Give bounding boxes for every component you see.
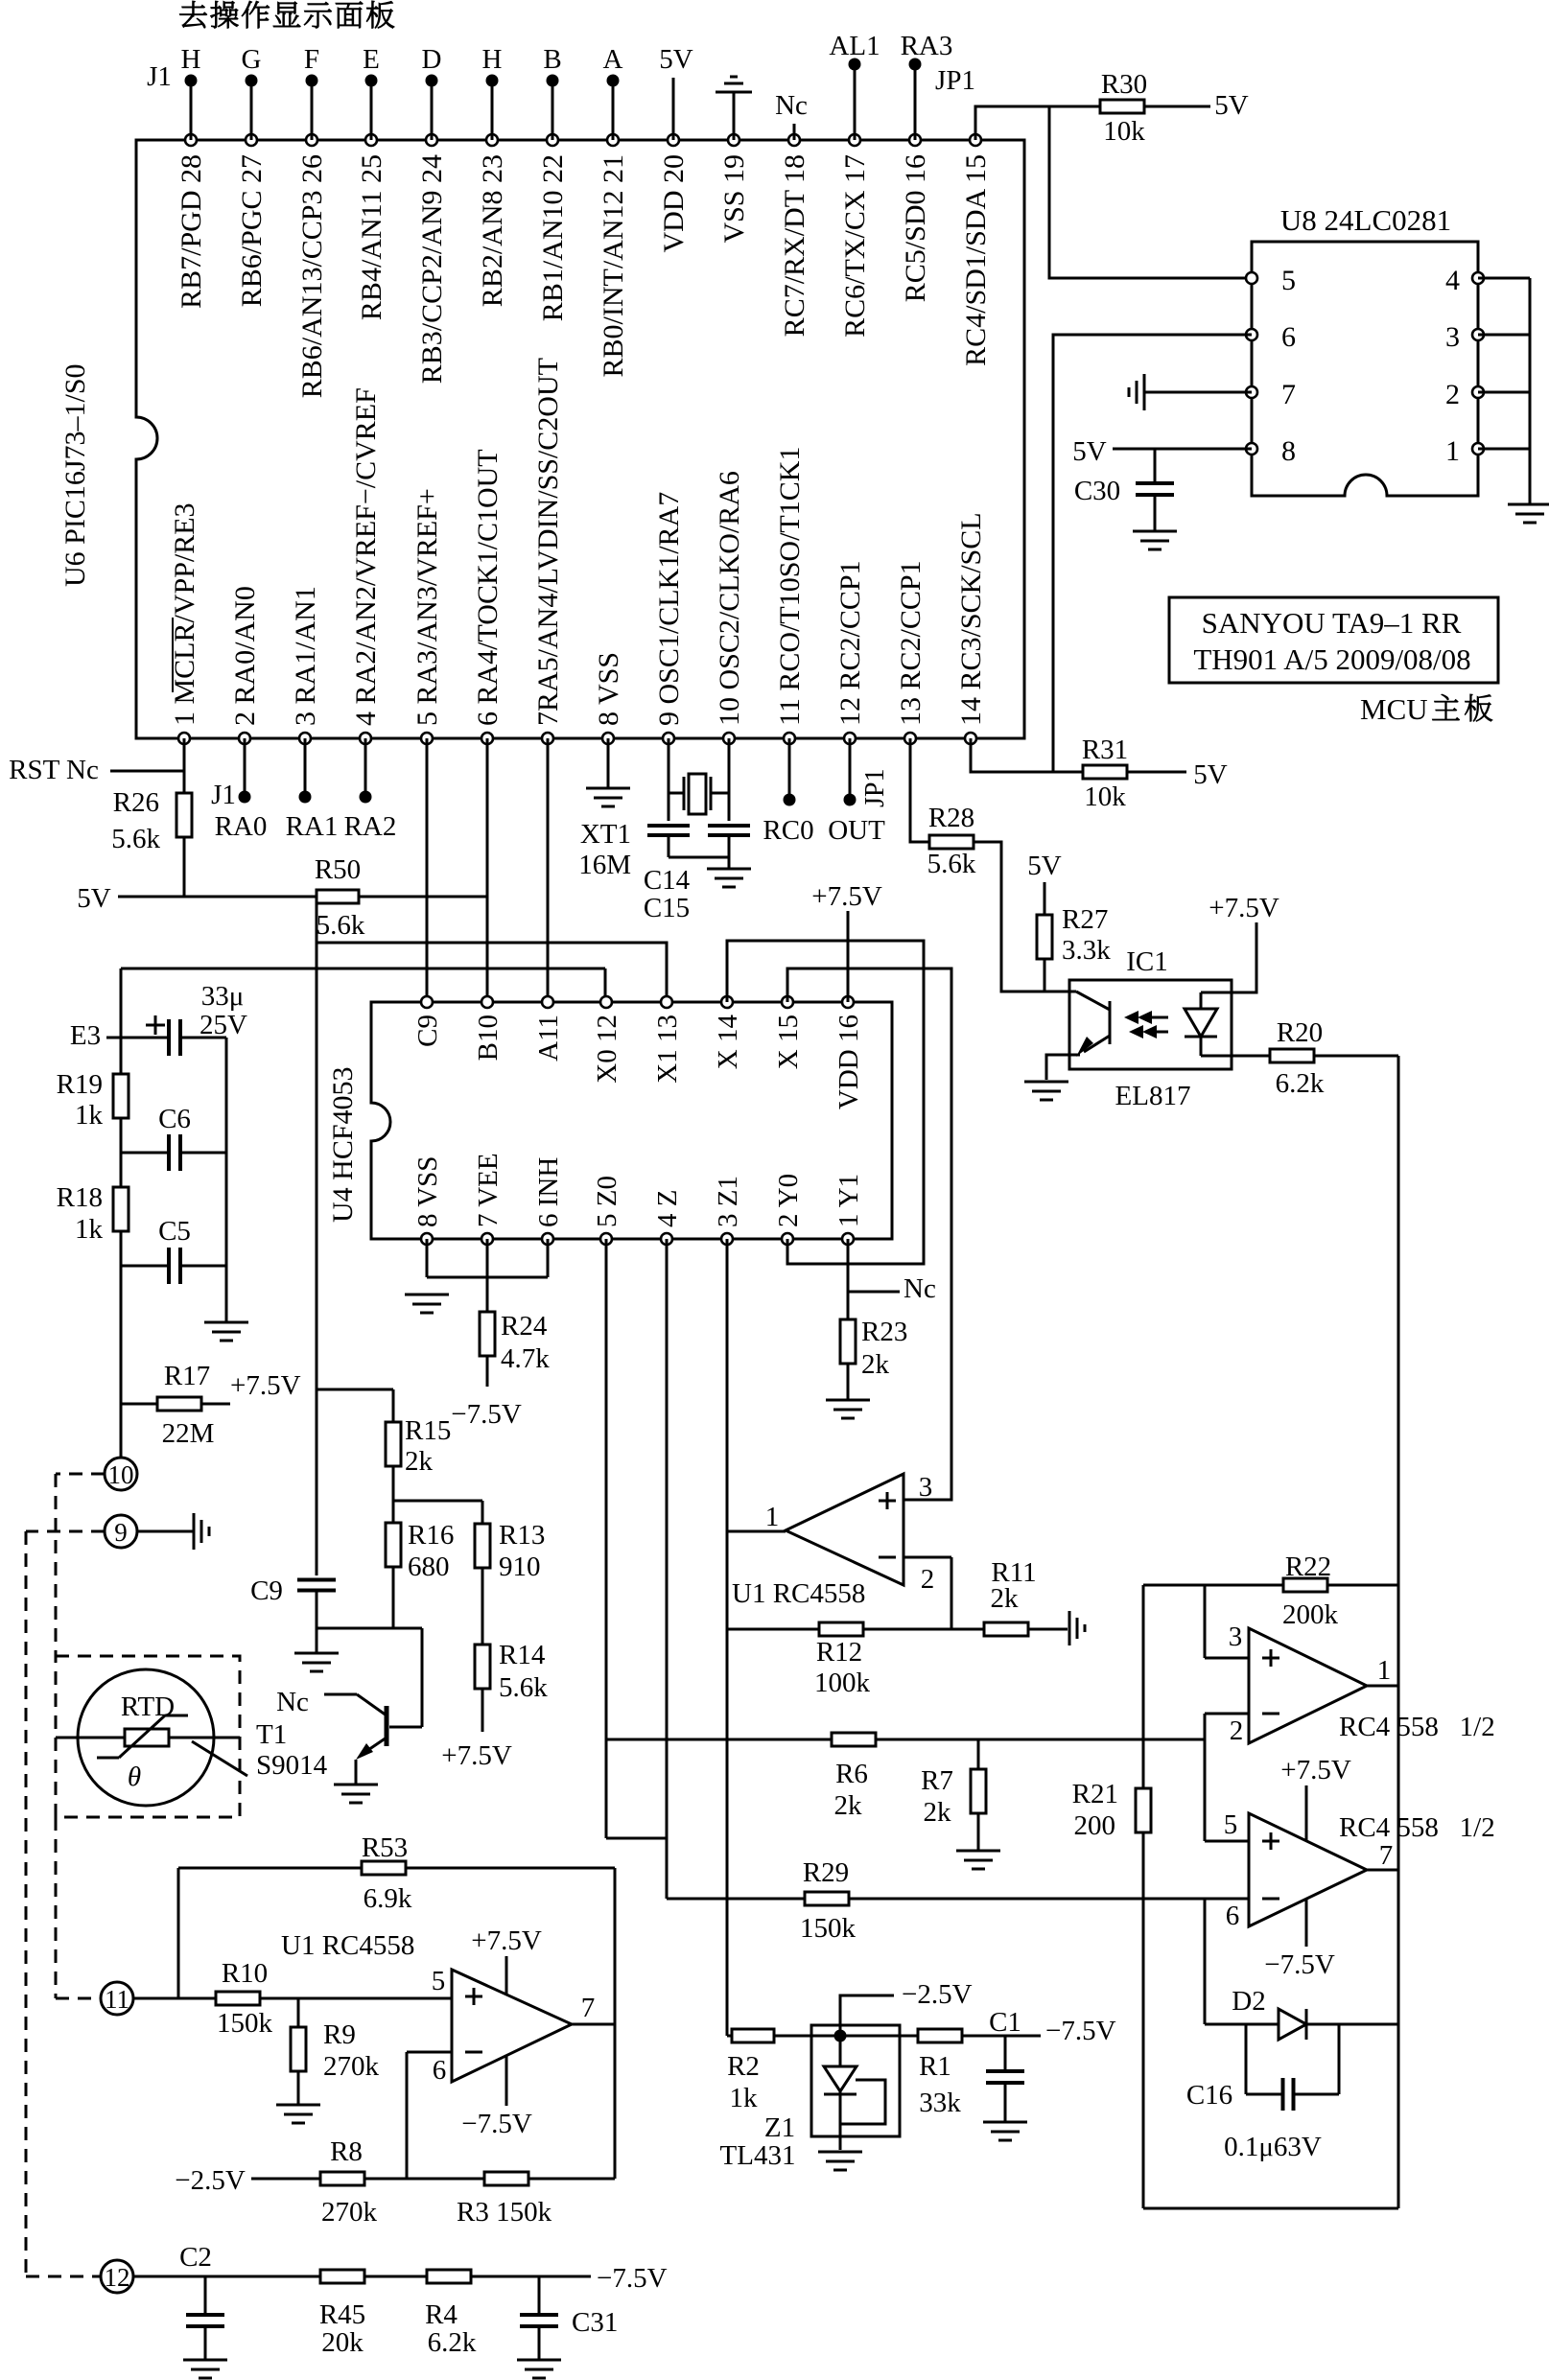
svg-text:θ: θ	[128, 1762, 141, 1792]
svg-text:5V: 5V	[77, 883, 111, 914]
svg-text:+7.5V: +7.5V	[811, 881, 882, 912]
svg-text:16M: 16M	[578, 850, 631, 880]
svg-text:RC4 558 1/2: RC4 558 1/2	[1339, 1712, 1495, 1742]
svg-text:3 Z1: 3 Z1	[713, 1176, 743, 1227]
svg-text:RB6/PGC 27: RB6/PGC 27	[236, 154, 268, 307]
svg-text:EL817: EL817	[1115, 1081, 1191, 1111]
svg-text:RC4 558 1/2: RC4 558 1/2	[1339, 1812, 1495, 1843]
svg-text:J1: J1	[211, 780, 236, 810]
svg-text:10: 10	[108, 1460, 134, 1489]
svg-text:F: F	[304, 44, 319, 75]
svg-text:R21: R21	[1072, 1779, 1118, 1809]
svg-text:22M: 22M	[162, 1418, 215, 1449]
svg-text:6: 6	[1226, 1901, 1240, 1931]
svg-text:2 RA0/AN0: 2 RA0/AN0	[229, 586, 261, 726]
svg-text:R53: R53	[362, 1832, 408, 1863]
svg-text:RB7/PGD 28: RB7/PGD 28	[176, 154, 207, 309]
svg-text:C14: C14	[644, 865, 691, 896]
svg-text:−7.5V: −7.5V	[451, 1399, 522, 1430]
svg-text:R13: R13	[499, 1520, 545, 1551]
svg-text:C6: C6	[158, 1104, 191, 1134]
svg-text:RB1/AN10 22: RB1/AN10 22	[537, 154, 569, 321]
svg-text:2k: 2k	[405, 1446, 434, 1477]
svg-text:1k: 1k	[75, 1100, 104, 1131]
svg-text:5: 5	[432, 1966, 446, 1996]
svg-text:5V: 5V	[1193, 759, 1228, 790]
svg-text:E: E	[363, 44, 380, 75]
svg-text:C5: C5	[158, 1216, 191, 1247]
svg-text:1: 1	[1377, 1655, 1392, 1686]
svg-text:2k: 2k	[834, 1790, 863, 1821]
svg-text:−2.5V: −2.5V	[175, 2165, 246, 2196]
svg-text:33k: 33k	[919, 2088, 961, 2118]
svg-text:R7: R7	[921, 1765, 953, 1796]
svg-text:R29: R29	[803, 1857, 849, 1888]
svg-text:5V: 5V	[659, 44, 693, 75]
svg-text:1 Y1: 1 Y1	[833, 1174, 864, 1227]
svg-text:R10: R10	[222, 1958, 268, 1989]
svg-text:C9: C9	[412, 1015, 443, 1047]
svg-text:R18: R18	[57, 1182, 103, 1213]
svg-text:RB4/AN11 25: RB4/AN11 25	[356, 154, 387, 320]
svg-text:1 MCLR/VPP/RE3: 1 MCLR/VPP/RE3	[169, 502, 200, 726]
svg-text:VDD 20: VDD 20	[658, 154, 690, 253]
svg-text:R27: R27	[1062, 904, 1108, 935]
svg-text:680: 680	[408, 1552, 450, 1582]
svg-text:+7.5V: +7.5V	[441, 1740, 512, 1771]
svg-text:8 VSS: 8 VSS	[593, 652, 624, 726]
svg-text:6.2k: 6.2k	[1276, 1068, 1325, 1099]
svg-text:2k: 2k	[861, 1349, 890, 1380]
svg-text:R8: R8	[330, 2136, 363, 2167]
svg-text:RB0/INT/AN12 21: RB0/INT/AN12 21	[598, 154, 629, 378]
svg-text:Nc: Nc	[775, 90, 808, 121]
svg-text:RC0: RC0	[763, 815, 813, 846]
svg-text:X1 13: X1 13	[652, 1015, 683, 1084]
svg-text:U8 24LC0281: U8 24LC0281	[1280, 203, 1451, 237]
svg-text:8: 8	[1281, 435, 1296, 467]
svg-text:1k: 1k	[75, 1214, 104, 1245]
svg-text:RB6/AN13/CCP3 26: RB6/AN13/CCP3 26	[296, 154, 328, 398]
svg-text:150k: 150k	[217, 2008, 273, 2039]
svg-text:7: 7	[1379, 1840, 1394, 1871]
svg-text:R45: R45	[319, 2299, 365, 2330]
svg-text:5V: 5V	[1214, 90, 1249, 121]
svg-text:U6 PIC16J73–1/S0: U6 PIC16J73–1/S0	[59, 363, 91, 587]
svg-text:RA3: RA3	[901, 31, 953, 61]
svg-text:RA2: RA2	[344, 811, 397, 842]
svg-text:R19: R19	[57, 1069, 103, 1100]
svg-text:3: 3	[1229, 1622, 1243, 1652]
svg-text:Nc: Nc	[904, 1273, 936, 1304]
svg-text:−7.5V: −7.5V	[1045, 2016, 1116, 2046]
svg-text:A11: A11	[533, 1015, 564, 1062]
svg-text:XT1: XT1	[580, 819, 631, 850]
svg-text:Z1: Z1	[764, 2112, 795, 2143]
svg-text:+7.5V: +7.5V	[230, 1370, 301, 1401]
svg-text:3.3k: 3.3k	[1062, 935, 1111, 966]
svg-text:6.2k: 6.2k	[428, 2327, 477, 2358]
svg-text:6.9k: 6.9k	[364, 1883, 412, 1914]
svg-text:12 RC2/CCP1: 12 RC2/CCP1	[834, 560, 866, 726]
svg-text:JP1: JP1	[935, 65, 975, 96]
svg-text:200: 200	[1074, 1810, 1116, 1841]
svg-text:−7.5V: −7.5V	[461, 2109, 532, 2139]
svg-text:5.6k: 5.6k	[927, 849, 976, 879]
svg-text:R6: R6	[835, 1759, 868, 1789]
svg-text:U1 RC4558: U1 RC4558	[732, 1578, 865, 1609]
svg-text:C16: C16	[1186, 2080, 1232, 2111]
svg-text:C1: C1	[989, 2007, 1021, 2038]
svg-text:D2: D2	[1232, 1986, 1265, 2017]
svg-text:Nc: Nc	[276, 1687, 309, 1717]
svg-text:2: 2	[1230, 1715, 1244, 1746]
svg-text:B10: B10	[473, 1015, 504, 1061]
svg-text:150k: 150k	[800, 1913, 857, 1944]
svg-text:11 RCO/T10SO/T1CK1: 11 RCO/T10SO/T1CK1	[774, 447, 806, 726]
svg-text:3: 3	[919, 1472, 933, 1503]
svg-text:+7.5V: +7.5V	[1209, 893, 1279, 923]
svg-text:2 Y0: 2 Y0	[773, 1174, 804, 1227]
svg-text:9: 9	[114, 1518, 128, 1547]
svg-text:5: 5	[1224, 1809, 1238, 1840]
svg-text:13 RC2/CCP1: 13 RC2/CCP1	[895, 560, 927, 726]
svg-text:AL1: AL1	[829, 31, 880, 61]
svg-text:200k: 200k	[1282, 1599, 1339, 1630]
svg-text:C9: C9	[250, 1575, 283, 1606]
svg-text:RB2/AN8 23: RB2/AN8 23	[477, 154, 508, 307]
svg-text:10k: 10k	[1084, 782, 1126, 812]
svg-text:R20: R20	[1277, 1017, 1323, 1048]
svg-text:H: H	[181, 44, 201, 75]
svg-text:2k: 2k	[991, 1583, 1020, 1614]
svg-text:7: 7	[1281, 379, 1296, 410]
svg-text:A: A	[603, 44, 623, 75]
svg-text:2: 2	[921, 1564, 935, 1595]
svg-text:1k: 1k	[730, 2083, 759, 2113]
svg-text:7: 7	[581, 1993, 596, 2023]
svg-text:IC1: IC1	[1126, 946, 1168, 977]
svg-text:100k: 100k	[814, 1668, 871, 1698]
svg-text:R23: R23	[861, 1317, 907, 1347]
svg-text:MCU: MCU	[1360, 692, 1428, 726]
svg-text:U1 RC4558: U1 RC4558	[281, 1930, 414, 1961]
svg-text:TH901 A/5 2009/08/08: TH901 A/5 2009/08/08	[1193, 642, 1470, 676]
svg-text:C31: C31	[572, 2307, 618, 2338]
svg-text:910: 910	[499, 1552, 541, 1582]
svg-text:5.6k: 5.6k	[111, 824, 160, 854]
svg-text:JP1: JP1	[860, 769, 890, 807]
svg-text:7 VEE: 7 VEE	[473, 1153, 504, 1227]
svg-text:G: G	[242, 44, 262, 75]
svg-text:5: 5	[1281, 265, 1296, 296]
svg-text:RST Nc: RST Nc	[9, 755, 99, 785]
svg-text:5.6k: 5.6k	[499, 1672, 548, 1703]
svg-text:TL431: TL431	[720, 2140, 796, 2171]
svg-text:20k: 20k	[321, 2327, 364, 2358]
svg-text:−7.5V: −7.5V	[597, 2263, 668, 2294]
svg-text:R9: R9	[323, 2019, 356, 2050]
svg-text:270k: 270k	[323, 2051, 380, 2082]
svg-text:RA1: RA1	[286, 811, 339, 842]
svg-text:12: 12	[105, 2263, 130, 2292]
svg-text:5 RA3/AN3/VREF+: 5 RA3/AN3/VREF+	[411, 488, 443, 726]
svg-text:11: 11	[105, 1985, 129, 2014]
svg-text:4.7k: 4.7k	[501, 1343, 550, 1374]
svg-text:1: 1	[765, 1502, 780, 1532]
svg-text:X 14: X 14	[713, 1015, 743, 1070]
svg-text:5V: 5V	[1072, 436, 1107, 467]
svg-text:−7.5V: −7.5V	[1264, 1949, 1335, 1980]
svg-text:5 Z0: 5 Z0	[592, 1176, 622, 1227]
svg-text:X0 12: X0 12	[592, 1015, 622, 1084]
svg-text:R22: R22	[1285, 1552, 1331, 1582]
svg-text:R4: R4	[425, 2299, 458, 2330]
svg-text:C15: C15	[644, 893, 690, 923]
svg-text:33μ: 33μ	[201, 981, 245, 1012]
svg-text:E3: E3	[70, 1020, 101, 1051]
svg-text:R16: R16	[408, 1520, 454, 1551]
svg-text:1: 1	[1445, 435, 1460, 467]
svg-text:4 RA2/AN2/VREF−/CVREF: 4 RA2/AN2/VREF−/CVREF	[350, 387, 382, 726]
svg-text:6 RA4/TOCK1/C1OUT: 6 RA4/TOCK1/C1OUT	[472, 449, 504, 726]
svg-text:−2.5V: −2.5V	[902, 1979, 973, 2010]
svg-text:X 15: X 15	[773, 1015, 804, 1069]
svg-text:R17: R17	[164, 1361, 210, 1391]
svg-text:2k: 2k	[924, 1797, 952, 1828]
svg-text:0.1μ63V: 0.1μ63V	[1224, 2132, 1322, 2162]
svg-text:D: D	[422, 44, 442, 75]
svg-text:2: 2	[1445, 379, 1460, 410]
svg-text:R15: R15	[405, 1415, 451, 1446]
svg-text:10 OSC2/CLKO/RA6: 10 OSC2/CLKO/RA6	[714, 471, 745, 726]
svg-text:6: 6	[433, 2055, 447, 2086]
svg-text:R30: R30	[1101, 69, 1147, 100]
svg-text:10k: 10k	[1103, 116, 1145, 147]
svg-text:6: 6	[1281, 321, 1296, 353]
svg-text:270k: 270k	[321, 2197, 378, 2228]
svg-text:H: H	[482, 44, 503, 75]
svg-text:R3 150k: R3 150k	[457, 2197, 552, 2228]
svg-text:VSS 19: VSS 19	[718, 154, 750, 244]
svg-text:+7.5V: +7.5V	[471, 1925, 542, 1956]
svg-text:3: 3	[1445, 321, 1460, 353]
svg-text:RB3/CCP2/AN9 24: RB3/CCP2/AN9 24	[416, 154, 448, 384]
svg-text:RC5/SD0 16: RC5/SD0 16	[900, 154, 931, 302]
svg-text:5.6k: 5.6k	[317, 910, 365, 941]
svg-text:RC4/SD1/SDA 15: RC4/SD1/SDA 15	[960, 154, 992, 366]
svg-text:6 INH: 6 INH	[533, 1157, 564, 1227]
svg-text:5V: 5V	[1027, 851, 1062, 881]
svg-text:OUT: OUT	[828, 815, 885, 846]
svg-text:25V: 25V	[199, 1010, 247, 1040]
svg-text:R12: R12	[816, 1637, 862, 1668]
svg-text:R50: R50	[315, 854, 361, 885]
svg-text:14 RC3/SCK/SCL: 14 RC3/SCK/SCL	[955, 512, 987, 726]
svg-text:S9014: S9014	[256, 1750, 328, 1781]
svg-text:8 VSS: 8 VSS	[412, 1156, 443, 1227]
svg-text:J1: J1	[147, 61, 172, 92]
svg-text:VDD 16: VDD 16	[833, 1015, 864, 1109]
svg-text:R24: R24	[501, 1311, 548, 1342]
svg-text:R31: R31	[1082, 735, 1128, 765]
svg-text:4: 4	[1445, 265, 1460, 296]
svg-text:C30: C30	[1074, 476, 1120, 506]
svg-text:+7.5V: +7.5V	[1280, 1755, 1351, 1785]
svg-text:C2: C2	[179, 2242, 212, 2273]
svg-text:R1: R1	[919, 2051, 951, 2082]
svg-text:SANYOU TA9–1 RR: SANYOU TA9–1 RR	[1202, 606, 1462, 640]
svg-text:R28: R28	[928, 803, 974, 833]
svg-text:4 Z: 4 Z	[652, 1190, 683, 1227]
svg-text:RC7/RX/DT 18: RC7/RX/DT 18	[779, 154, 810, 337]
svg-text:R14: R14	[499, 1640, 546, 1670]
svg-text:7RA5/AN4/LVDIN/SS/C2OUT: 7RA5/AN4/LVDIN/SS/C2OUT	[532, 358, 564, 726]
svg-text:R2: R2	[727, 2051, 760, 2082]
svg-text:U4 HCF4053: U4 HCF4053	[327, 1066, 359, 1223]
svg-text:3 RA1/AN1: 3 RA1/AN1	[290, 586, 321, 726]
svg-text:RC6/TX/CX 17: RC6/TX/CX 17	[839, 154, 871, 338]
svg-text:T1: T1	[256, 1719, 287, 1750]
svg-text:RTD: RTD	[121, 1692, 175, 1722]
svg-text:9 OSC1/CLK1/RA7: 9 OSC1/CLK1/RA7	[653, 492, 685, 726]
svg-text:RA0: RA0	[215, 811, 268, 842]
svg-text:B: B	[543, 44, 561, 75]
svg-text:R26: R26	[113, 787, 159, 818]
